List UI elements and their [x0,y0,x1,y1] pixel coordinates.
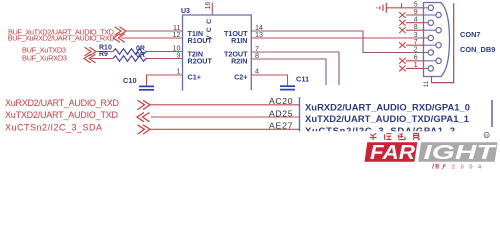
stub junction above ground wire [401,3,403,8]
svg-text:11: 11 [423,80,430,87]
wire ground to DB9 pin5 [386,7,423,9]
wire pin 1 to C10 [147,75,184,86]
svg-text:CON_DB9: CON_DB9 [460,45,495,54]
svg-text:1: 1 [177,67,181,76]
wire segment right edge [491,100,493,127]
svg-text:XuTXD2/UART_AUDIO_TXD: XuTXD2/UART_AUDIO_TXD [5,110,119,120]
svg-text:C2+: C2+ [234,73,247,82]
svg-text:7: 7 [414,39,418,46]
port chevron in (row D) [84,54,96,63]
wire pin13 to DB9 pin3 [252,37,424,39]
svg-text:BUF_XuRXD2/UART_AUDIO_RXD: BUF_XuRXD2/UART_AUDIO_RXD [8,34,115,43]
svg-text:XuTXD2/UART_AUDIO_TXD/GPA1_1: XuTXD2/UART_AUDIO_TXD/GPA1_1 [305,113,469,124]
svg-text:1: 1 [414,62,418,69]
port chevron out (bottom row 3) [138,125,151,134]
connector CON7 DB9 body [424,3,450,77]
svg-text:2: 2 [414,46,418,53]
port chevron in (bottom row 2) [137,113,150,122]
logo chinese chars 华清远见 [370,133,420,140]
wire chevron to R9 [91,58,113,60]
capacitor C11 [280,86,295,89]
svg-text:IGHT: IGHT [424,141,497,164]
wire chevron to R10 [96,51,113,53]
wire R9 to pin 9 [147,58,183,60]
svg-text:AE27: AE27 [269,121,293,131]
svg-text:R9: R9 [99,51,108,58]
capacitor C10 [139,86,154,89]
pin name XuCTSn2/I2C_3_SDA/GPA1_2 (clipped) [305,125,455,136]
svg-text:16: 16 [205,2,212,10]
svg-text:8: 8 [414,24,418,31]
logo tagline [0,0,1,1]
wire row A to pin 11 [126,30,183,32]
wire R10 to pin 10 [147,51,183,53]
wire bottom row 2 [151,116,299,118]
port chevron out (bottom row 1) [138,100,151,109]
wire bottom row 3 [150,128,299,130]
svg-text:R1OUT: R1OUT [188,36,213,45]
svg-text:XuRXD2/UART_AUDIO_RXD: XuRXD2/UART_AUDIO_RXD [5,98,120,108]
op-amp/IC U3 box (open bottom) [183,15,252,91]
port chevron out (row C) [85,47,97,56]
svg-text:R2OUT: R2OUT [188,56,213,65]
DB9 pin numbers [414,2,418,70]
port chevron out (row A) [115,27,127,36]
logo IGHT block [418,142,497,161]
wire pin7 down [252,52,340,85]
svg-text:AC20: AC20 [269,96,293,106]
svg-text:2 0 0 4: 2 0 0 4 [452,165,483,171]
wire pin14 to DB9 pin2 (jog) [252,31,424,53]
svg-text:4: 4 [414,17,418,24]
svg-text:9: 9 [177,51,181,60]
svg-text:AD25: AD25 [269,108,293,118]
DB9 pin circles [428,5,441,71]
resistor R9 zigzag [113,56,147,62]
svg-text:9: 9 [414,9,418,16]
wire pin4 to C11 [252,75,288,85]
logo FAR block [365,142,418,161]
wire bottom row 1 [150,104,299,106]
svg-text:XuCTSn2/I2C_3_SDA: XuCTSn2/I2C_3_SDA [5,122,102,132]
svg-text:R2IN: R2IN [231,56,247,65]
shield wire from DB9 pin 11 loop [432,3,454,82]
svg-text:CON7: CON7 [460,30,481,39]
wire row B to pin 12 [121,37,183,39]
svg-text:C11: C11 [296,74,309,83]
pin 16 wire (VCC) [211,3,213,15]
CPU box edge [299,97,301,132]
port chevron in (row B) [113,34,125,43]
svg-text:R1IN: R1IN [231,36,247,45]
svg-text:C1+: C1+ [188,73,201,82]
svg-text:4: 4 [255,67,259,76]
svg-text:C10: C10 [123,76,137,85]
DB9 pin lines into circles [423,8,436,69]
svg-text:3: 3 [414,32,418,39]
resistor R10 zigzag [113,49,147,55]
DB9 no-connect stubs and X marks [399,12,423,71]
svg-text:6: 6 [414,55,418,62]
ground (earth) symbol [377,3,386,13]
svg-text:XuRXD2/UART_AUDIO_RXD/GPA1_0: XuRXD2/UART_AUDIO_RXD/GPA1_0 [305,102,470,113]
wire pin8 down [252,59,327,85]
svg-text:FAR: FAR [370,141,415,164]
tagline glyph marks [433,164,446,169]
svg-text:5: 5 [414,2,418,9]
registered mark [484,132,489,138]
svg-text:12: 12 [173,30,181,39]
svg-text:U3: U3 [181,8,190,15]
svg-text:BUF_XuRXD3: BUF_XuRXD3 [22,54,67,63]
svg-text:0R: 0R [136,52,145,59]
svg-text:R: R [485,133,488,138]
